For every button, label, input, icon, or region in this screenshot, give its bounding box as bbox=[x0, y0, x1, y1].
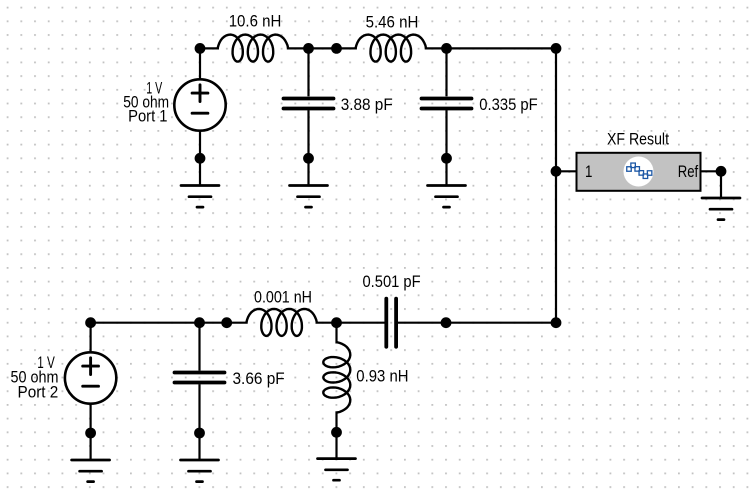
node C2 gnd bbox=[441, 153, 452, 164]
node V2 gnd bbox=[85, 428, 96, 439]
voltage source V2 Port 2 bbox=[89, 323, 91, 353]
svg-text:Port 2: Port 2 bbox=[18, 382, 59, 401]
svg-text:3.66 pF: 3.66 pF bbox=[233, 369, 285, 388]
junction node top rail at C1 bbox=[303, 43, 314, 54]
wire node to bus corner bbox=[446, 322, 556, 324]
capacitor C4 0.501 pF series bbox=[386, 299, 396, 347]
wire V1 to ground bbox=[199, 131, 201, 186]
svg-text:10.6 nH: 10.6 nH bbox=[229, 12, 282, 31]
wire L1 to node bbox=[287, 47, 309, 49]
svg-text:0.001 nH: 0.001 nH bbox=[254, 288, 312, 307]
inductor L1 10.6 nH bbox=[218, 35, 288, 62]
svg-text:1: 1 bbox=[585, 162, 592, 181]
ground V1 bbox=[181, 186, 219, 208]
inductor L2 5.46 nH bbox=[356, 35, 426, 62]
node XF pin1 bbox=[551, 166, 562, 177]
wire L2 to node bbox=[425, 47, 447, 49]
junction node top rail mid bbox=[331, 43, 342, 54]
ground C2 bbox=[428, 186, 466, 208]
svg-text:Port 1: Port 1 bbox=[128, 107, 167, 126]
node C3 gnd bbox=[194, 428, 205, 439]
svg-text:5.46 nH: 5.46 nH bbox=[366, 12, 419, 31]
inductor L4 0.93 nH shunt bbox=[335, 323, 337, 344]
wire node to C4 bbox=[337, 322, 385, 324]
wire bottom rail V2 to C3 bbox=[91, 322, 200, 324]
capacitor C1 3.88 pF bbox=[307, 48, 309, 96]
junction node bottom rail right of C4 bbox=[441, 317, 452, 328]
junction node top rail corner bbox=[551, 43, 562, 54]
junction node bottom rail at L4 bbox=[331, 317, 342, 328]
capacitor C2 0.335 pF bbox=[445, 48, 447, 96]
wire node to corner bbox=[447, 47, 557, 49]
node XF ref bbox=[716, 166, 727, 177]
ground V2 bbox=[72, 460, 110, 482]
wire right vertical bus bbox=[555, 48, 557, 322]
svg-text:Ref: Ref bbox=[678, 162, 699, 181]
wire top rail: port1 node to L1 bbox=[200, 47, 219, 49]
wire L4 to ground bbox=[335, 432, 337, 458]
wire node to L3 bbox=[227, 322, 248, 324]
junction node bottom rail at C3 bbox=[194, 317, 205, 328]
junction node top rail at V1 bbox=[195, 43, 206, 54]
ground C3 bbox=[181, 460, 219, 482]
svg-text:0.501 pF: 0.501 pF bbox=[363, 272, 421, 291]
XF icon waveform bbox=[624, 157, 654, 187]
node V1 gnd bbox=[195, 153, 206, 164]
svg-text:3.88 pF: 3.88 pF bbox=[341, 95, 393, 114]
wire C3 node to node bbox=[200, 322, 227, 324]
wire C4 to node bbox=[398, 322, 446, 324]
ground L4 bbox=[318, 459, 356, 481]
XF Result block bbox=[577, 153, 701, 191]
wire down to ground bbox=[720, 171, 722, 198]
ground C1 bbox=[290, 186, 328, 208]
capacitor C3 3.66 pF bbox=[198, 323, 200, 371]
svg-text:XF Result: XF Result bbox=[607, 129, 669, 148]
node L4 gnd bbox=[331, 427, 342, 438]
ground XF bbox=[702, 198, 740, 220]
junction node bottom rail mid bbox=[221, 317, 232, 328]
voltage source V1 Port 1 bbox=[199, 48, 201, 79]
svg-text:0.335 pF: 0.335 pF bbox=[479, 95, 537, 114]
wire node to node bbox=[309, 47, 337, 49]
wire bus to XF pin 1 bbox=[556, 170, 577, 172]
junction node bottom rail at V2 bbox=[85, 317, 96, 328]
svg-text:0.93 nH: 0.93 nH bbox=[356, 367, 408, 386]
wire L3 to node bbox=[316, 322, 337, 324]
wire XF Ref to gnd node bbox=[701, 170, 722, 172]
junction node bottom rail corner bbox=[551, 317, 562, 328]
junction node top rail at C2 bbox=[441, 43, 452, 54]
inductor L3 0.001 nH bbox=[246, 309, 316, 336]
node C1 gnd bbox=[303, 153, 314, 164]
wire node to L2 bbox=[337, 47, 357, 49]
